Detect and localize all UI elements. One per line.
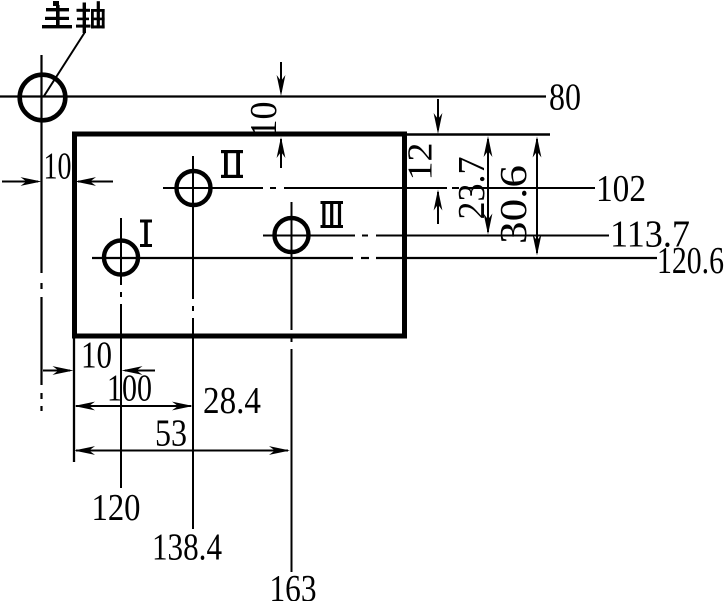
spindle circle <box>20 75 66 121</box>
svg-text:138.4: 138.4 <box>152 527 222 569</box>
svg-text:23.7: 23.7 <box>451 157 493 220</box>
hole III vertical centerline <box>291 202 293 572</box>
dimension 12 <box>437 99 439 224</box>
svg-text:30.6: 30.6 <box>493 165 535 244</box>
hole III label III <box>321 201 344 228</box>
svg-text:53: 53 <box>155 413 187 455</box>
hole III horizontal centerline (113.7) <box>263 235 609 237</box>
hole I label I <box>140 220 152 248</box>
spindle vertical centerline <box>40 55 42 411</box>
svg-text:102: 102 <box>596 168 646 210</box>
hole II horizontal centerline (102) <box>163 187 595 189</box>
hole II circle <box>177 171 211 205</box>
dimension 23.7 <box>487 139 489 232</box>
svg-text:163: 163 <box>270 568 317 601</box>
svg-text:120.6: 120.6 <box>657 240 724 282</box>
hole I circle <box>104 241 138 275</box>
dimension 30.6 <box>536 139 538 253</box>
dimension 10 vertical (top) <box>280 62 282 168</box>
hole II vertical centerline <box>192 156 194 529</box>
spindle label 主轴 <box>42 1 105 33</box>
datum line 80 <box>0 95 546 97</box>
left edge extension line below <box>73 336 75 462</box>
dimension 53 <box>76 450 288 452</box>
svg-text:10: 10 <box>243 102 285 138</box>
plate outline <box>75 134 405 336</box>
svg-text:80: 80 <box>549 77 581 119</box>
hole I horizontal centerline (120.6) <box>92 257 657 259</box>
svg-text:10: 10 <box>44 146 72 188</box>
hole I vertical centerline <box>120 218 122 488</box>
hole II label II <box>221 150 243 178</box>
leader line to spindle <box>44 32 85 96</box>
svg-text:12: 12 <box>401 143 440 181</box>
hole III circle <box>275 218 309 252</box>
dimension 10 bottom <box>43 370 155 372</box>
dimension 10 horizontal (left) <box>2 181 113 183</box>
top edge extension line <box>404 133 550 135</box>
svg-text:120: 120 <box>92 487 141 529</box>
svg-text:28.4: 28.4 <box>203 380 261 422</box>
dimension 100 <box>76 405 191 407</box>
svg-text:100: 100 <box>107 368 152 410</box>
